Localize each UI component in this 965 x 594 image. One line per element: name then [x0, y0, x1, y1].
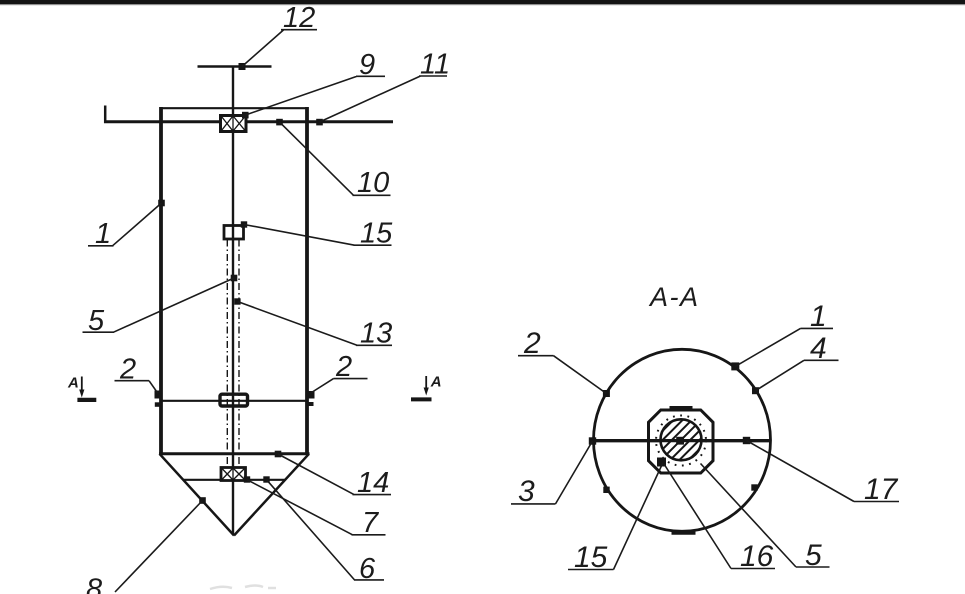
svg-text:9: 9 — [359, 49, 375, 81]
svg-text:10: 10 — [357, 167, 389, 199]
svg-text:17: 17 — [864, 473, 899, 506]
svg-text:13: 13 — [360, 318, 392, 350]
svg-text:5: 5 — [88, 305, 105, 337]
svg-text:1: 1 — [95, 218, 111, 250]
svg-text:2: 2 — [335, 351, 352, 383]
svg-text:4: 4 — [810, 332, 827, 365]
svg-text:6: 6 — [359, 553, 376, 585]
svg-text:15: 15 — [360, 218, 393, 250]
svg-text:3: 3 — [518, 475, 535, 508]
svg-text:7: 7 — [362, 507, 380, 539]
svg-text:15: 15 — [574, 541, 608, 574]
svg-text:16: 16 — [740, 540, 774, 573]
svg-text:A: A — [430, 374, 442, 391]
svg-text:11: 11 — [420, 49, 450, 81]
svg-text:12: 12 — [283, 2, 315, 34]
svg-text:2: 2 — [523, 327, 541, 360]
svg-text:8: 8 — [86, 574, 102, 594]
svg-text:A: A — [67, 375, 79, 392]
svg-text:14: 14 — [357, 467, 389, 499]
svg-text:1: 1 — [810, 300, 827, 333]
svg-text:5: 5 — [805, 539, 822, 572]
svg-text:2: 2 — [119, 354, 136, 386]
svg-text:A-A: A-A — [648, 282, 700, 312]
